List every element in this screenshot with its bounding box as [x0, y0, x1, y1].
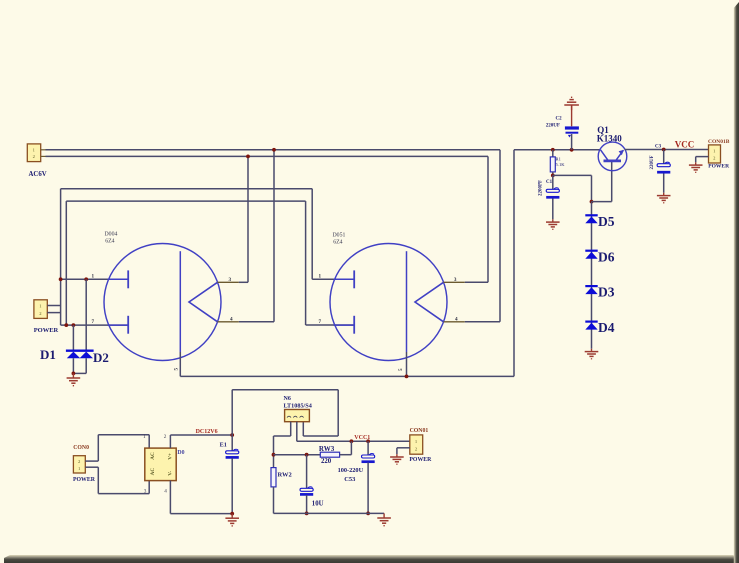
svg-text:D0: D0 — [177, 450, 184, 456]
svg-text:6Z4: 6Z4 — [105, 239, 114, 245]
svg-text:C3: C3 — [655, 144, 662, 149]
svg-text:4: 4 — [164, 489, 167, 495]
svg-text:3: 3 — [229, 277, 232, 283]
svg-text:D1: D1 — [40, 347, 56, 362]
svg-text:6Z4: 6Z4 — [333, 240, 342, 246]
svg-text:VCC: VCC — [675, 139, 695, 149]
svg-text:2: 2 — [164, 434, 167, 440]
svg-text:4: 4 — [455, 316, 458, 322]
svg-text:AC: AC — [150, 468, 156, 476]
svg-text:1: 1 — [92, 274, 95, 280]
svg-text:D6: D6 — [598, 249, 615, 264]
svg-text:10U: 10U — [312, 501, 324, 508]
svg-text:RW3: RW3 — [319, 445, 335, 453]
svg-text:100-220U: 100-220U — [338, 467, 364, 474]
svg-text:D4: D4 — [598, 320, 615, 335]
svg-text:POWER: POWER — [708, 164, 730, 170]
svg-text:7: 7 — [92, 319, 95, 325]
svg-text:C53: C53 — [344, 476, 356, 483]
svg-text:POWER: POWER — [409, 457, 432, 463]
svg-text:4: 4 — [230, 316, 233, 322]
svg-text:POWER: POWER — [34, 327, 59, 334]
svg-text:3: 3 — [454, 277, 457, 283]
svg-text:5: 5 — [174, 368, 180, 371]
svg-text:AC: AC — [150, 452, 156, 460]
svg-text:220UF: 220UF — [546, 123, 560, 128]
svg-text:E1: E1 — [220, 442, 227, 449]
svg-text:D051: D051 — [333, 233, 346, 239]
svg-text:D2: D2 — [93, 350, 109, 365]
svg-text:D3: D3 — [598, 285, 615, 300]
svg-text:D004: D004 — [105, 232, 118, 238]
svg-text:POWER: POWER — [73, 477, 96, 483]
svg-text:5: 5 — [398, 368, 404, 371]
svg-text:K1340: K1340 — [597, 134, 623, 144]
svg-text:C2: C2 — [556, 117, 563, 122]
svg-text:AC6V: AC6V — [29, 171, 47, 178]
svg-text:DC12V6: DC12V6 — [196, 429, 218, 435]
svg-text:RW2: RW2 — [278, 471, 292, 478]
svg-text:C1: C1 — [546, 180, 553, 185]
svg-text:VCC1: VCC1 — [354, 435, 370, 441]
svg-text:CON01: CON01 — [410, 428, 429, 434]
svg-text:5.1K: 5.1K — [556, 162, 566, 167]
svg-text:220: 220 — [321, 458, 332, 465]
svg-text:CON0: CON0 — [73, 445, 89, 451]
svg-text:2200PF: 2200PF — [539, 180, 544, 196]
svg-text:LT1085/S4: LT1085/S4 — [284, 403, 312, 410]
svg-text:3: 3 — [144, 489, 147, 495]
svg-text:CON01B: CON01B — [708, 139, 730, 145]
svg-text:N6: N6 — [284, 396, 291, 402]
svg-text:220UF: 220UF — [650, 155, 655, 169]
svg-text:1: 1 — [143, 434, 146, 440]
svg-text:R1: R1 — [556, 156, 562, 161]
svg-text:7: 7 — [319, 319, 322, 325]
svg-text:V+: V+ — [168, 453, 174, 460]
svg-text:D5: D5 — [598, 214, 615, 229]
svg-text:V-: V- — [168, 470, 174, 475]
svg-text:1: 1 — [319, 274, 322, 280]
